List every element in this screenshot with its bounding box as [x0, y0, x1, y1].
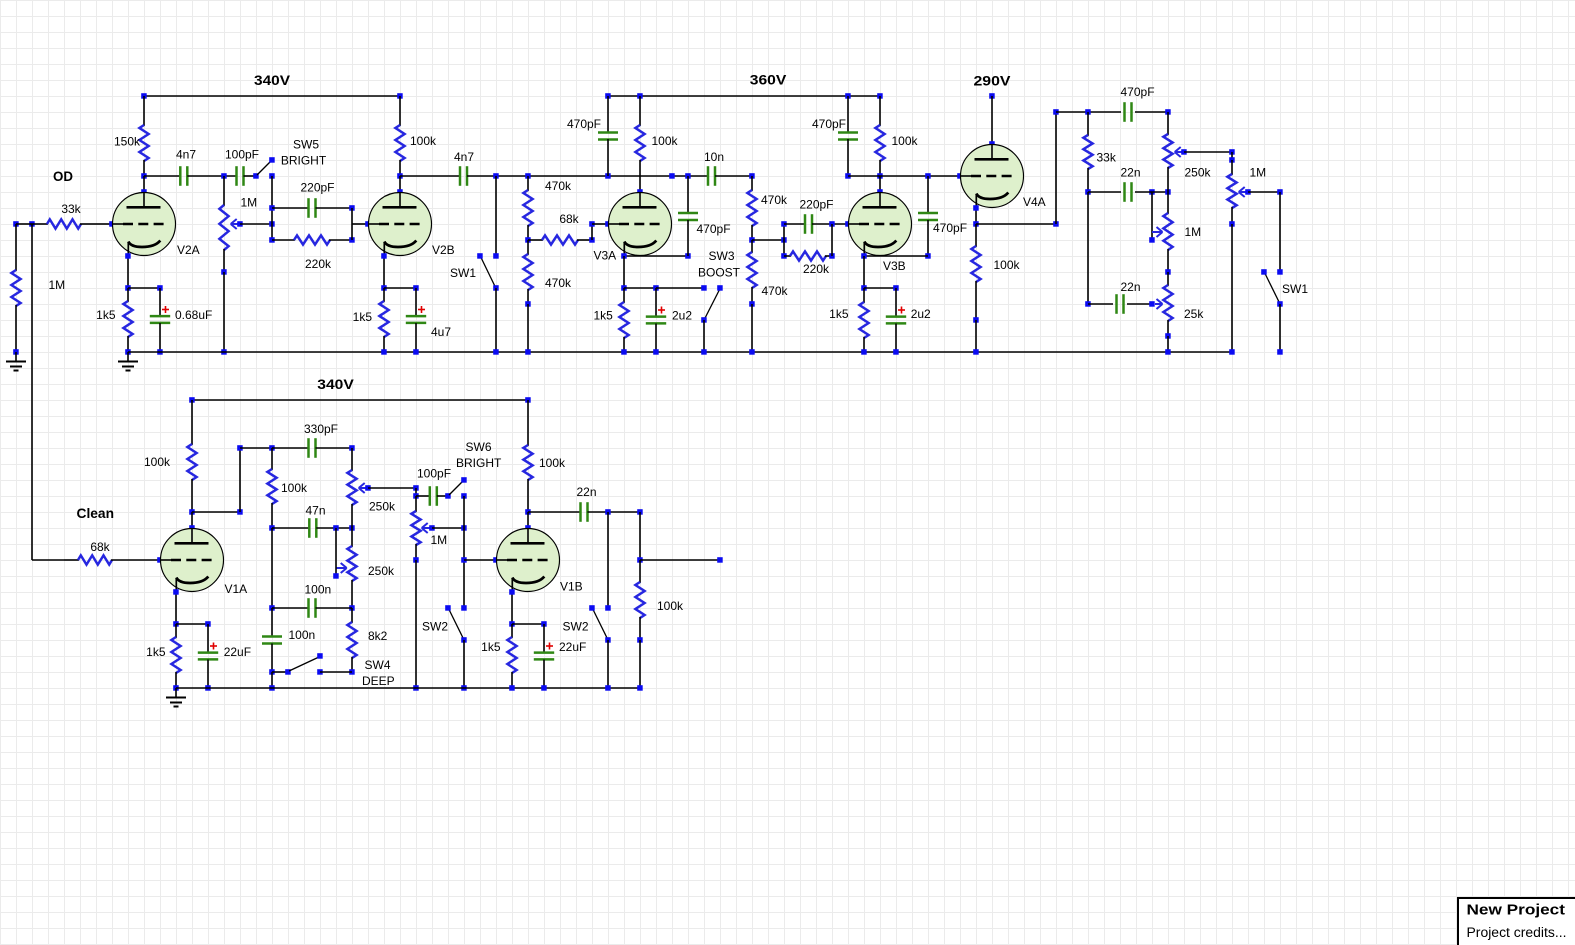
label 100pF bright [417, 467, 451, 481]
wire bright bus x272 [269, 176, 275, 243]
wiper 250k presence [1175, 147, 1187, 157]
svg-text:22n: 22n [1121, 166, 1141, 180]
wire 220pF boost left [784, 223, 806, 225]
wire 100n B to rail [269, 672, 275, 691]
svg-text:1M: 1M [241, 196, 258, 210]
svg-text:100k: 100k [657, 599, 684, 613]
svg-text:BOOST: BOOST [698, 266, 741, 280]
svg-text:V1A: V1A [225, 582, 248, 596]
label 470k series B [761, 193, 788, 207]
svg-text:1k5: 1k5 [829, 307, 849, 321]
label 470pF shelf [567, 117, 601, 131]
label 1k5 V2A [96, 308, 116, 322]
svg-text:4u7: 4u7 [431, 325, 451, 339]
switch SW4 [289, 653, 323, 675]
wire 100pF bright left [416, 495, 430, 497]
label BRIGHT [281, 153, 327, 167]
svg-text:V1B: V1B [560, 580, 583, 594]
wire 100n A right [316, 607, 353, 609]
capacitor 0.68uF [150, 288, 170, 355]
resistor 1k5 V1B [507, 624, 516, 691]
svg-text:33k: 33k [61, 202, 81, 216]
label SW1 out [1282, 282, 1308, 296]
wire to V2B grid [352, 208, 371, 240]
wire SW2 B to rail [605, 640, 611, 691]
wire 470pF top right [1135, 109, 1171, 115]
label V4A [1023, 195, 1046, 209]
svg-text:SW6: SW6 [466, 440, 492, 454]
label SW2 B [563, 620, 589, 634]
svg-text:0.68uF: 0.68uF [175, 308, 212, 322]
label 100k V1A [144, 455, 171, 469]
capacitor 10n [708, 166, 715, 186]
svg-text:220k: 220k [803, 262, 830, 276]
svg-text:SW2: SW2 [422, 620, 448, 634]
svg-text:100n: 100n [305, 583, 332, 597]
label 100n B [289, 628, 316, 642]
wiper 1M depth [1152, 227, 1163, 237]
resistor 1k5 V1A [171, 624, 180, 691]
wire 4n7 to 100pF [187, 173, 236, 179]
wire ground rail OD [128, 351, 1232, 353]
wire plate V2B [397, 176, 403, 195]
label 1k5 V2B [353, 310, 373, 324]
wire SW4 left [272, 669, 291, 675]
svg-text:8k2: 8k2 [368, 629, 388, 643]
svg-text:220pF: 220pF [300, 181, 334, 195]
wire plate V3B [877, 176, 883, 195]
resistor 100k V1A [187, 400, 196, 515]
triode V2B [369, 193, 432, 257]
capacitor 470pF snub [838, 96, 858, 179]
svg-text:1M: 1M [1250, 166, 1267, 180]
resistor 1k5 V2B [379, 288, 388, 355]
svg-text:68k: 68k [559, 212, 579, 226]
label 0.68uF [175, 308, 212, 322]
label DEEP [362, 674, 395, 688]
capacitor 100pF bright [430, 486, 437, 506]
resistor 220k [272, 235, 355, 244]
capacitor 100pF [237, 166, 244, 186]
wire wiper 250k to 1M [1184, 149, 1235, 163]
wire wiper to bus [240, 221, 275, 227]
wire mid wiper [333, 528, 339, 579]
wire 220pF top right [316, 205, 355, 211]
capacitor 470pF top [1125, 102, 1132, 122]
svg-text:100k: 100k [652, 134, 679, 148]
svg-text:1M: 1M [1185, 225, 1202, 239]
wire load to rail [637, 640, 643, 691]
svg-text:SW4: SW4 [365, 658, 391, 672]
wire down to out [637, 512, 643, 563]
wire plate V2A [141, 176, 147, 195]
svg-text:100pF: 100pF [417, 467, 451, 481]
potentiometer 1M master [1227, 160, 1236, 227]
svg-text:Project credits...: Project credits... [1467, 925, 1567, 940]
label 470k shunt A [545, 276, 572, 290]
svg-text:10n: 10n [704, 150, 724, 164]
wire 100pF to SW5 [244, 173, 259, 179]
svg-text:340V: 340V [317, 376, 354, 392]
label 22n B [1121, 280, 1141, 294]
label SW4 [365, 658, 391, 672]
svg-text:DEEP: DEEP [362, 674, 395, 688]
svg-text:470pF: 470pF [933, 221, 967, 235]
capacitor 470pF fb V3B [918, 176, 938, 259]
wire volume wiper out [432, 525, 467, 531]
switch SW2 A [445, 605, 467, 643]
potentiometer 250k presence [1163, 112, 1172, 192]
label 1k5 V3B [829, 307, 849, 321]
triode V2A [113, 193, 176, 257]
wire V3A cathode side [621, 253, 691, 259]
wiper 25k [1155, 299, 1163, 309]
capacitor 220pF boost [805, 214, 812, 234]
triode V1A [161, 529, 224, 593]
label 47n [305, 504, 325, 518]
svg-text:V2B: V2B [432, 243, 455, 257]
svg-text:SW5: SW5 [293, 138, 319, 152]
wire cathode follower out [976, 221, 1059, 227]
svg-text:V3A: V3A [594, 249, 617, 263]
wire V3B cathode side [861, 253, 928, 259]
wire top net [1056, 109, 1121, 115]
wire wiper to SW1 out [1248, 189, 1283, 195]
label 1M input [49, 278, 66, 292]
capacitor 220pF [309, 198, 316, 218]
svg-text:SW1: SW1 [450, 266, 476, 280]
label 33k [61, 202, 81, 216]
svg-text:1k5: 1k5 [96, 308, 116, 322]
svg-text:BRIGHT: BRIGHT [281, 153, 327, 167]
label V2B [432, 243, 455, 257]
svg-text:470pF: 470pF [697, 222, 731, 236]
label 2u2 V3B [911, 307, 931, 321]
wire SW2 B feed [605, 512, 611, 611]
potentiometer 25k [1163, 272, 1172, 339]
svg-text:100k: 100k [281, 481, 308, 495]
svg-text:SW2: SW2 [563, 620, 589, 634]
label 1k5 V1A [146, 645, 166, 659]
label SW1 [450, 266, 476, 280]
svg-text:New Project: New Project [1467, 902, 1566, 919]
wire V2B cathode [381, 253, 387, 291]
label 68k grid stop [559, 212, 579, 226]
svg-text:100k: 100k [539, 456, 566, 470]
wire 100k V4A to rail [973, 320, 979, 355]
svg-text:1M: 1M [49, 278, 66, 292]
triode V3A [609, 193, 672, 257]
resistor 220k boost [784, 251, 835, 260]
label 100k slope [281, 481, 308, 495]
label 4u7 [431, 325, 451, 339]
net label 340V Clean rail [317, 376, 354, 392]
wire cathode branch V2A [128, 285, 163, 291]
label 470k series A [545, 179, 572, 193]
capacitor 22uF V1B [534, 624, 554, 691]
wire 25k to rail [1165, 336, 1171, 355]
potentiometer 1M depth [1163, 192, 1172, 275]
wire 100pF bright right [437, 493, 451, 499]
resistor 33k [32, 219, 96, 228]
label 1M depth [1185, 225, 1202, 239]
wire 68k to V1A grid [128, 557, 163, 563]
resistor 150k [139, 96, 148, 179]
resistor 33k out [1083, 112, 1092, 195]
label 250k treble [369, 500, 396, 514]
wiper 1M gain [231, 219, 243, 229]
svg-text:360V: 360V [750, 72, 787, 88]
svg-text:1k5: 1k5 [481, 640, 501, 654]
wire SW6 down [461, 496, 467, 611]
capacitor 470pF fb V3A [678, 176, 698, 256]
wiper 250k treble [359, 483, 371, 493]
label V2A [177, 243, 200, 257]
net label 290V [974, 73, 1012, 89]
wire 1M volume to rail [413, 560, 419, 691]
capacitor 22n out [581, 502, 588, 522]
resistor 68k grid stop [528, 235, 595, 244]
svg-text:250k: 250k [369, 500, 396, 514]
label 250k presence [1185, 166, 1212, 180]
wire boost left leg [781, 221, 787, 259]
wire plate V1B [525, 512, 531, 531]
wire V1A cathode [173, 589, 179, 627]
label 470k shunt B [762, 284, 789, 298]
svg-text:470k: 470k [545, 276, 572, 290]
wire 33k to grid [96, 221, 115, 227]
label 25k [1184, 307, 1204, 321]
resistor 100k V3B [875, 96, 884, 179]
wire plate V4A [989, 96, 995, 147]
label 470pF fb V3B [933, 221, 967, 235]
potentiometer 250k treble [347, 448, 356, 528]
label 470pF fb V3A [697, 222, 731, 236]
potentiometer 250k mid [347, 528, 356, 611]
wire 22n B left [1085, 192, 1113, 307]
resistor 100k clean load [635, 560, 644, 643]
capacitor 2u2 V3A [646, 288, 666, 355]
switch SW5 [257, 157, 275, 179]
wire SW3 to rail [701, 320, 707, 355]
label BOOST [698, 266, 741, 280]
svg-text:2u2: 2u2 [911, 307, 931, 321]
svg-text:4n7: 4n7 [176, 148, 196, 162]
label 100k V3B [892, 134, 919, 148]
node 290V [989, 93, 995, 99]
triode V1B [497, 529, 560, 593]
net label 360V [750, 72, 787, 88]
svg-text:2u2: 2u2 [672, 309, 692, 323]
svg-text:470k: 470k [545, 179, 572, 193]
svg-text:470k: 470k [761, 193, 788, 207]
label 100k V2B [410, 134, 437, 148]
label SW3 [708, 249, 734, 263]
resistor 100k V4A cathode [971, 224, 980, 323]
wire SW2 A to rail [461, 640, 467, 691]
wire 220pF boost right [812, 221, 851, 227]
label 68k clean input [90, 540, 110, 554]
svg-text:68k: 68k [90, 540, 110, 554]
potentiometer 1M gain [219, 176, 228, 275]
label SW5 [293, 138, 319, 152]
wire V3A cathode down [621, 256, 627, 291]
capacitor 4u7 [406, 288, 426, 355]
label 220pF [300, 181, 334, 195]
wiper 1M volume [422, 523, 435, 533]
label 100k clean load [657, 599, 684, 613]
resistor 100k V3A [635, 96, 644, 195]
svg-text:220k: 220k [305, 257, 332, 271]
wire 100n A left [269, 528, 308, 611]
resistor 68k clean input [64, 555, 128, 564]
capacitor 2u2 V3B [886, 288, 906, 355]
svg-text:470pF: 470pF [812, 117, 846, 131]
wire treble wiper out [368, 485, 419, 499]
resistor 8k2 [347, 608, 356, 675]
label 330pF [304, 422, 338, 436]
switch SW2 B [589, 605, 611, 643]
switch SW6 [449, 477, 467, 499]
resistor 470k shunt B [747, 240, 756, 307]
label 250k mid [368, 564, 395, 578]
wire V1B grid [464, 557, 499, 563]
capacitor 22n B [1117, 294, 1124, 314]
svg-text:BRIGHT: BRIGHT [456, 456, 502, 470]
svg-text:SW1: SW1 [1282, 282, 1308, 296]
switch SW1 [477, 253, 499, 291]
svg-text:100k: 100k [994, 258, 1021, 272]
svg-text:100pF: 100pF [225, 148, 259, 162]
capacitor 22uF V1A [198, 624, 218, 691]
wire 22n A left [1088, 189, 1155, 195]
wire 10n right [715, 173, 755, 179]
wire V1B cathode [509, 589, 515, 627]
label BRIGHT clean [456, 456, 502, 470]
label 220pF boost [799, 198, 833, 212]
wire 47n left [272, 527, 309, 529]
label 470pF top [1121, 85, 1155, 99]
svg-text:150k: 150k [114, 135, 141, 149]
capacitor 100n A [309, 598, 316, 618]
wire V3B cathode down [861, 256, 867, 291]
label 33k out [1097, 151, 1117, 165]
svg-text:470pF: 470pF [567, 117, 601, 131]
wire 22n out right [588, 509, 643, 515]
svg-text:100k: 100k [144, 455, 171, 469]
svg-text:100k: 100k [410, 134, 437, 148]
wire up to tone [237, 445, 243, 512]
label OD [53, 168, 73, 184]
ground clean [166, 688, 186, 707]
capacitor 4n7 coupling [460, 166, 467, 186]
wire ground rail clean [176, 687, 640, 689]
resistor 1k5 V2A [123, 288, 132, 355]
wire SW1 out feed [1277, 192, 1283, 275]
wire cathode branch V1B [512, 621, 547, 627]
label 10n [704, 150, 724, 164]
wire SW1 to rail [493, 288, 499, 355]
label 100k V1B [539, 456, 566, 470]
resistor 1M input [11, 224, 20, 355]
svg-text:470pF: 470pF [1121, 85, 1155, 99]
wire 1M master to rail [1229, 224, 1235, 355]
label 1k5 V3A [593, 309, 613, 323]
svg-text:22n: 22n [1121, 280, 1141, 294]
resistor 1k5 V3B [859, 288, 868, 355]
wire SW4 right [320, 671, 352, 673]
label 22uF V1A [224, 645, 251, 659]
wire up to top net [1053, 109, 1059, 224]
resistor 470k series A [523, 176, 532, 243]
title box New Project [1458, 898, 1575, 945]
wire SW1 feed [493, 176, 499, 259]
wire 330pF right [316, 445, 355, 451]
label SW6 [466, 440, 492, 454]
svg-text:4n7: 4n7 [454, 150, 474, 164]
node OD input [13, 221, 35, 227]
wire 220pF top left [272, 207, 309, 209]
ground input [6, 352, 26, 371]
wire V2A cathode [125, 253, 131, 291]
label V1A [225, 582, 248, 596]
wire 360V rail [605, 93, 883, 99]
wire OD-to-Clean feed [32, 224, 64, 560]
wire boost right leg [831, 224, 833, 256]
svg-text:V4A: V4A [1023, 195, 1046, 209]
label 1M volume [431, 533, 448, 547]
label 22uF V1B [559, 640, 586, 654]
label 100n A [305, 583, 332, 597]
label 100k V4A cathode [994, 258, 1021, 272]
svg-text:100k: 100k [892, 134, 919, 148]
svg-text:SW3: SW3 [708, 249, 734, 263]
triode V3B [849, 193, 912, 257]
capacitor 22n A [1125, 182, 1132, 202]
wire cathode branch V2B [384, 285, 419, 291]
label 220k boost [803, 262, 830, 276]
label V1B [560, 580, 583, 594]
wire cathode branch V3A [624, 285, 659, 291]
label 100pF [225, 148, 259, 162]
potentiometer 1M volume [411, 496, 420, 563]
wire 1M3 feed [1149, 192, 1155, 243]
label V3A [594, 249, 617, 263]
capacitor 47n [309, 518, 316, 538]
label 22n A [1121, 166, 1141, 180]
wire plate V1A [189, 512, 195, 531]
svg-text:Clean: Clean [77, 505, 115, 521]
resistor 100k slope [267, 448, 276, 531]
wire V3B out bus [848, 173, 963, 179]
wire 68k to V3A grid [589, 221, 611, 240]
wire V2B plate out [400, 175, 460, 177]
label 2u2 V3A [672, 309, 692, 323]
label 470pF snub [812, 117, 846, 131]
wire 470k shunt B to rail [749, 304, 755, 355]
wire V4A cathode [973, 205, 979, 227]
label 150k [114, 135, 141, 149]
label V3B [883, 259, 906, 273]
wire clean output [640, 557, 723, 563]
svg-text:22n: 22n [577, 485, 597, 499]
wire 340V Clean rail [189, 397, 531, 403]
label 4n7 [176, 148, 196, 162]
ground V2A [118, 352, 138, 371]
svg-text:1k5: 1k5 [353, 310, 373, 324]
switch SW1 out [1261, 269, 1283, 307]
wiper 1M master [1239, 187, 1251, 197]
